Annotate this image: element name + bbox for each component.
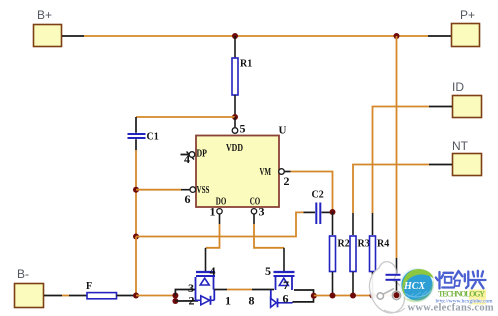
- port B-: [15, 267, 44, 308]
- junction P+ branch: [394, 33, 400, 39]
- pin 1 DO: [210, 205, 223, 219]
- port ID: [452, 80, 482, 118]
- capacitor C1: [128, 117, 159, 150]
- resistor R3: [350, 213, 370, 296]
- wire CO to Q2 gate: [254, 214, 284, 272]
- pin 6 VSS: [185, 187, 196, 206]
- svg-text:F: F: [86, 281, 92, 292]
- junction R3 bottom: [350, 293, 356, 299]
- svg-text:6: 6: [185, 192, 191, 206]
- svg-text:3: 3: [259, 205, 265, 219]
- wire C2 left stub: [304, 211, 316, 213]
- svg-text:P+: P+: [460, 8, 475, 22]
- svg-text:R3: R3: [358, 239, 370, 250]
- pin 4 DP: [181, 152, 195, 167]
- svg-text:ID: ID: [452, 80, 464, 94]
- port B+: [34, 8, 62, 47]
- transistor Q1: [188, 264, 216, 308]
- svg-text:www.elecfans.com: www.elecfans.com: [408, 303, 494, 314]
- svg-text:HCX: HCX: [403, 281, 425, 292]
- svg-text:DO: DO: [216, 196, 227, 208]
- svg-text:R2: R2: [338, 239, 350, 250]
- wire VSS: [136, 189, 190, 191]
- resistor R1: [232, 36, 252, 117]
- svg-text:B+: B+: [37, 8, 52, 22]
- wire VM net: [284, 171, 290, 173]
- junction Q1 source A: [172, 293, 178, 299]
- wire Q2 drain loop: [293, 290, 314, 302]
- svg-text:C2: C2: [312, 190, 324, 201]
- svg-text:TECHNOLOGY: TECHNOLOGY: [438, 290, 485, 299]
- svg-text:4: 4: [184, 152, 190, 166]
- svg-text:U: U: [279, 125, 287, 137]
- junction Q2 drain: [311, 293, 317, 299]
- watermark chinese text (drawn as strokes): [436, 271, 486, 289]
- svg-text:5: 5: [265, 264, 271, 278]
- svg-text:8: 8: [249, 294, 255, 308]
- junction C2/VM/R2: [330, 209, 336, 215]
- wire B- rail to Q1: [136, 295, 175, 297]
- junction R1 top: [232, 33, 238, 39]
- wire top rail: [84, 35, 428, 37]
- svg-text:VSS: VSS: [197, 184, 210, 196]
- junction R4 bottom: [370, 293, 376, 299]
- watermark signature strokes: [377, 289, 405, 313]
- junction R1 bottom: [232, 114, 238, 120]
- junction B- rail / C1: [133, 293, 139, 299]
- wire C1 to B- rail: [135, 237, 137, 296]
- svg-text:1: 1: [225, 294, 231, 308]
- port NT: [452, 139, 482, 176]
- pin 5: [232, 122, 245, 136]
- wire DO to Q1 gate: [206, 214, 220, 272]
- wire fuse to junction: [117, 295, 137, 297]
- svg-text:VM: VM: [260, 166, 272, 178]
- junction R2 bottom: [330, 293, 336, 299]
- svg-text:2: 2: [284, 174, 290, 188]
- capacitor C3: [386, 275, 401, 296]
- wire B- stub: [44, 295, 87, 297]
- wire P+ stub: [428, 35, 451, 37]
- svg-text:7: 7: [283, 278, 289, 292]
- resistor R2: [330, 212, 350, 296]
- svg-text:1: 1: [210, 205, 216, 219]
- port P+: [452, 8, 480, 47]
- svg-text:4: 4: [210, 264, 216, 278]
- svg-text:2: 2: [189, 294, 195, 308]
- wire bottom rail: [314, 295, 397, 297]
- wire Q1 to Q2 (pins 1-8): [214, 290, 274, 308]
- svg-text:R4: R4: [377, 239, 389, 250]
- wire C1 to VSS junction: [135, 150, 137, 237]
- pin 3 CO: [251, 205, 264, 219]
- wire B+ stub: [62, 35, 84, 37]
- watermark HCX globe: [401, 269, 434, 303]
- junction VSS net: [133, 187, 139, 193]
- wire P+ branch vertical: [396, 36, 398, 274]
- svg-text:B-: B-: [17, 267, 29, 281]
- svg-text:R1: R1: [240, 59, 252, 70]
- IC U: [196, 125, 287, 208]
- transistor Q2: [265, 264, 295, 307]
- svg-text:VDD: VDD: [226, 142, 243, 154]
- wire ID net: [373, 107, 453, 214]
- junction C1 lower: [133, 234, 139, 240]
- watermark technology: [436, 290, 494, 305]
- watermark signature blob: [369, 262, 404, 313]
- svg-text:6: 6: [283, 292, 289, 306]
- wire NT net: [353, 165, 452, 214]
- svg-text:DP: DP: [197, 148, 208, 160]
- junction Q1 source B: [172, 298, 178, 304]
- fuse F: [86, 281, 117, 299]
- svg-text:5: 5: [240, 122, 246, 136]
- wire pin5 stub: [234, 117, 236, 127]
- junction C3 bottom: [394, 292, 400, 298]
- wire VSS to C2: [136, 212, 304, 236]
- wire Q1 pin3: [175, 290, 195, 296]
- capacitor C2: [312, 190, 332, 225]
- wire Q1 pin2: [175, 300, 198, 302]
- svg-text:C1: C1: [147, 132, 159, 143]
- pin 2 VM: [279, 169, 290, 188]
- wire C1 top to pin5: [136, 116, 235, 118]
- svg-text:NT: NT: [452, 139, 469, 153]
- resistor R4: [370, 213, 390, 296]
